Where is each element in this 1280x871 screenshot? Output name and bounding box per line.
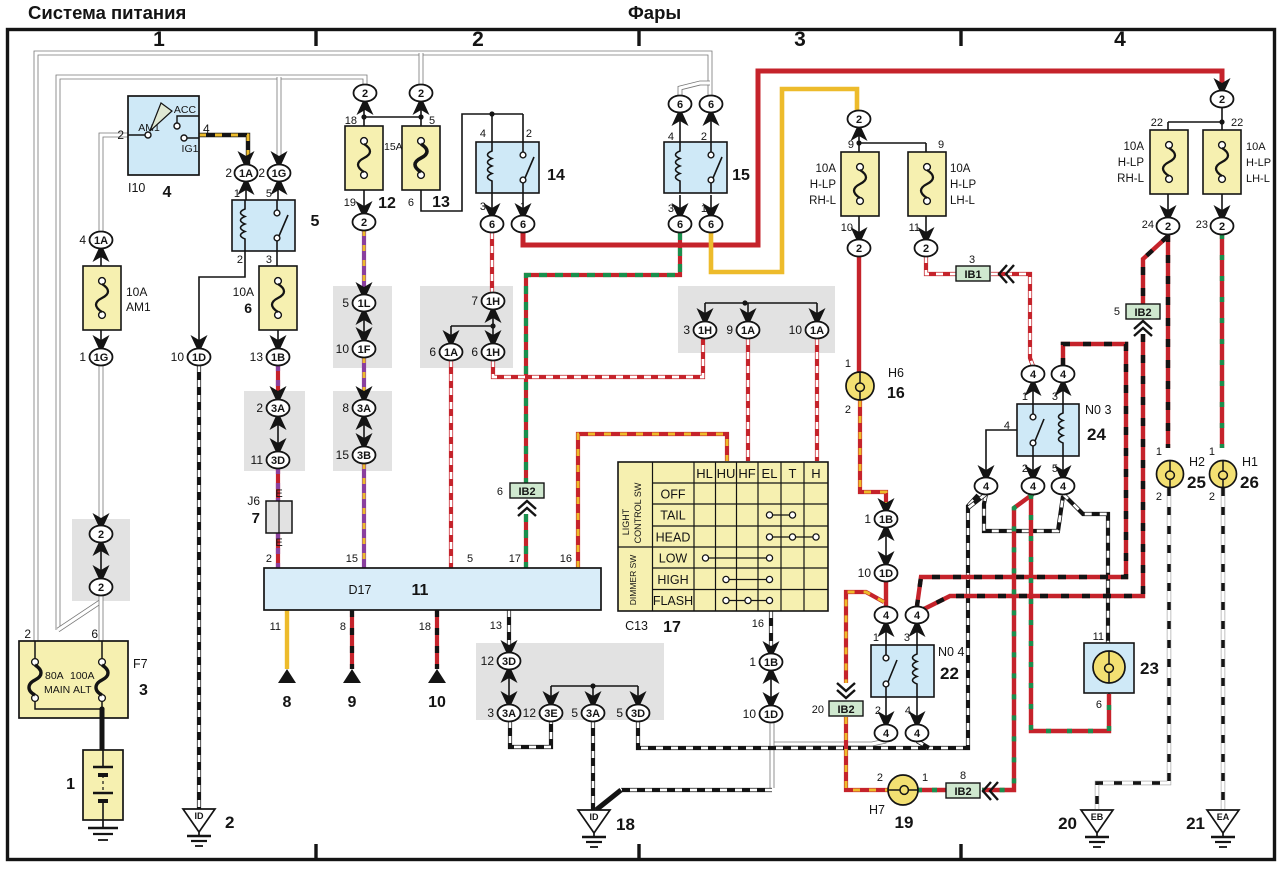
svg-text:4: 4 — [480, 128, 486, 140]
wire red connector 1D to relay22 connector 4 — [884, 581, 888, 607]
wire red-white connector 1H-6 to connector 1H-3 — [493, 338, 703, 377]
svg-text:2: 2 — [117, 128, 124, 142]
connector 4 relay22 pin3 — [909, 624, 926, 637]
connector 1H 7 — [471, 293, 504, 310]
ground ID 2 — [183, 809, 215, 846]
svg-text:7: 7 — [471, 294, 478, 308]
svg-text:9: 9 — [938, 139, 944, 151]
connector pair 1B 1D headlight sw — [878, 498, 895, 511]
svg-text:2: 2 — [1156, 491, 1162, 503]
svg-text:7: 7 — [252, 510, 260, 527]
svg-text:24: 24 — [1087, 425, 1106, 444]
svg-text:2: 2 — [1219, 94, 1225, 106]
svg-text:11: 11 — [412, 582, 429, 599]
wire violet-yellow 3B to D17 pin15 — [362, 463, 366, 568]
svg-text:4: 4 — [883, 610, 890, 622]
wire violet-yellow fuse12 chain to 1L — [362, 230, 366, 295]
svg-text:EL: EL — [762, 466, 778, 481]
svg-text:3B: 3B — [357, 450, 371, 462]
svg-text:3A: 3A — [271, 403, 285, 415]
svg-text:25: 25 — [1187, 473, 1206, 492]
ground EB 20 — [1081, 810, 1113, 847]
wire connector 1A to fuse AM1 — [100, 249, 102, 266]
svg-text:9: 9 — [848, 139, 854, 151]
wire fuse H-LP RH-L to connector 2 — [858, 215, 860, 240]
wire fuse AM1 to connector 1G — [100, 330, 102, 348]
wire yellow relay15 pin1 to fuse bus — [711, 89, 857, 272]
svg-text:Система питания: Система питания — [28, 2, 186, 23]
svg-text:10: 10 — [428, 694, 446, 711]
bulb H7 19 — [869, 772, 928, 832]
svg-text:2: 2 — [526, 128, 532, 140]
panel connectors 1L-1F — [333, 286, 392, 368]
svg-text:6: 6 — [497, 486, 503, 498]
svg-text:4: 4 — [1114, 28, 1126, 51]
wire white battery feed F7 pin2 to connector 2 and relay15 — [36, 53, 710, 641]
wire black-white relay24 connector 4 to bulb 23 — [1063, 494, 1108, 643]
wire white branch to connector 2 above fuse 13 — [419, 53, 424, 85]
connector 3D 5 — [630, 691, 647, 704]
connector 6 relay15 pin4 — [672, 113, 689, 126]
svg-text:16: 16 — [887, 385, 905, 402]
svg-text:4: 4 — [1060, 481, 1067, 493]
wire red fuse output to bulb H6 — [857, 256, 861, 372]
svg-text:E: E — [275, 488, 282, 500]
svg-text:4: 4 — [883, 728, 890, 740]
wire black-white relay22 connector 4 tap — [917, 741, 929, 748]
terminal arrow 10 — [428, 669, 446, 711]
svg-text:10A: 10A — [816, 163, 837, 175]
svg-text:H: H — [811, 466, 820, 481]
wire black-white relay24 connector 4 bottom loop — [984, 494, 1063, 531]
panel connectors 1H-1A-1H — [420, 286, 513, 368]
wire relay24 pin4 to connector 4 — [986, 430, 1029, 478]
svg-text:12: 12 — [523, 706, 537, 720]
svg-text:N0 4: N0 4 — [938, 645, 964, 659]
ECU block D17 11 — [264, 568, 601, 610]
svg-text:3E: 3E — [544, 708, 557, 720]
connector 2 below fuse RH-L mid — [851, 227, 868, 240]
svg-text:1: 1 — [79, 350, 86, 364]
svg-text:HIGH: HIGH — [657, 573, 688, 587]
svg-text:3: 3 — [139, 682, 148, 699]
wire red-yellow D17 pin16 to table HU — [578, 434, 727, 568]
wire black-white connector 1D to ground 2 — [197, 365, 201, 809]
svg-text:15: 15 — [336, 448, 350, 462]
svg-text:4: 4 — [668, 131, 674, 143]
svg-text:20: 20 — [1058, 814, 1077, 833]
svg-text:1: 1 — [873, 632, 879, 644]
wire relay5 pin2 to connector 1D — [199, 251, 245, 348]
connector IB1 3 — [956, 266, 990, 281]
wire white relay15 pin4 jog — [680, 83, 710, 96]
svg-text:3: 3 — [683, 323, 690, 337]
wire red-black D17 pin8 to terminal 9 — [350, 610, 354, 669]
wire bus above H-LP fuses right — [1168, 107, 1222, 130]
fuse 6 10A — [259, 266, 297, 330]
battery ground — [88, 820, 118, 840]
svg-text:TAIL: TAIL — [660, 509, 686, 523]
svg-text:3A: 3A — [502, 708, 516, 720]
svg-text:4: 4 — [983, 481, 990, 493]
connector 2 below fuse LH-L mid — [918, 227, 935, 240]
connector 1H 6 — [485, 330, 502, 343]
wire black-white connector 3D-5 to relay24 connector 4 — [638, 495, 978, 748]
wire relay5 pin3 to fuse6 — [276, 251, 278, 266]
svg-text:8: 8 — [283, 694, 292, 711]
wire black-white bulb H2 to ground 20 — [1097, 488, 1169, 809]
fuse 13 — [402, 126, 440, 190]
svg-text:22: 22 — [1151, 117, 1163, 129]
svg-text:4: 4 — [1030, 369, 1037, 381]
svg-text:2: 2 — [225, 813, 234, 832]
svg-text:T: T — [789, 466, 797, 481]
wire bulb23 pin stubs — [1108, 643, 1110, 694]
svg-text:2: 2 — [1219, 221, 1225, 233]
ground ID 18 — [578, 810, 610, 847]
svg-text:H6: H6 — [888, 366, 904, 380]
connector 4 relay22 pin4 — [909, 711, 926, 724]
relay 15 — [664, 142, 727, 193]
svg-text:18: 18 — [419, 621, 431, 633]
wire right fuses to connectors 2 — [1168, 194, 1222, 218]
wire junction panel 1H left — [451, 309, 493, 344]
relay 22 N0 4 — [871, 645, 934, 697]
connector panel 3D 12 — [501, 640, 518, 653]
wire red-white fuse LH-L to IB1 — [926, 256, 956, 274]
svg-text:3A: 3A — [357, 403, 371, 415]
svg-text:1D: 1D — [764, 709, 778, 721]
svg-text:5: 5 — [1114, 306, 1120, 318]
svg-text:5: 5 — [616, 706, 623, 720]
svg-text:1H: 1H — [486, 296, 500, 308]
svg-text:2: 2 — [256, 401, 263, 415]
connector pair 1L 1F — [356, 282, 373, 295]
svg-text:2: 2 — [225, 166, 232, 180]
svg-text:10A: 10A — [233, 285, 254, 299]
connector 6 relay15 pin2 — [703, 113, 720, 126]
connector pair 2 2 left — [93, 513, 110, 526]
wire black-white connector 3A-3 to 3E-12 — [510, 721, 551, 747]
wire white F7 pin6 loop to connector 2 above fuse 12 — [58, 77, 365, 630]
svg-text:HL: HL — [696, 466, 713, 481]
svg-text:10A: 10A — [1124, 141, 1145, 153]
battery 1 — [66, 750, 123, 820]
terminal arrow 8 — [278, 669, 296, 711]
wire white ignition AM1 to fuse AM1 — [101, 135, 128, 232]
svg-text:CONTROL SW: CONTROL SW — [633, 482, 643, 543]
wire red-white IB1 to relay24 connector 4 — [991, 274, 1033, 366]
svg-text:4: 4 — [163, 184, 172, 201]
svg-text:15A: 15A — [384, 141, 403, 153]
svg-text:1: 1 — [153, 28, 165, 51]
relay 14 — [476, 142, 539, 193]
wire black-white relay24 connector 4 diagonal — [968, 494, 986, 508]
svg-text:1A: 1A — [741, 325, 755, 337]
svg-text:18: 18 — [616, 815, 635, 834]
svg-text:2: 2 — [472, 28, 484, 51]
connector pair 3A 3D left — [270, 386, 287, 399]
svg-text:DIMMER SW: DIMMER SW — [628, 555, 638, 606]
svg-text:13: 13 — [490, 620, 502, 632]
wire green-red relay15 pin3 to IB2-6 to D17 pin17 — [526, 232, 680, 483]
connector 6 relay14 pin1 — [515, 203, 532, 216]
connector 6 relay15 pin3 — [672, 203, 689, 216]
connector pair 3A 3B — [356, 386, 373, 399]
svg-text:13: 13 — [432, 194, 450, 211]
svg-text:6: 6 — [708, 219, 714, 231]
connector 3A 5 — [585, 691, 602, 704]
terminal arrow 9 — [343, 669, 361, 711]
svg-text:4: 4 — [914, 728, 921, 740]
wire white diagonal joint near F7 — [58, 602, 100, 630]
bulb H6 16 — [845, 358, 905, 416]
svg-text:9: 9 — [726, 323, 733, 337]
wire red-violet J6 to D17 pin2 — [276, 533, 280, 568]
svg-text:2: 2 — [258, 166, 265, 180]
svg-text:AM1: AM1 — [126, 300, 151, 314]
connector 1B fuse6 — [270, 335, 287, 348]
svg-text:1H: 1H — [698, 325, 712, 337]
svg-text:15: 15 — [732, 167, 750, 184]
svg-text:16: 16 — [560, 553, 572, 565]
section tick top 2|3 — [637, 28, 640, 46]
svg-text:3: 3 — [480, 201, 486, 213]
panel connectors 2-2 — [72, 519, 130, 601]
svg-text:10: 10 — [743, 707, 757, 721]
wire connectors 6 to relay15 pins — [680, 112, 711, 142]
svg-text:3: 3 — [487, 706, 494, 720]
svg-text:1: 1 — [922, 772, 928, 784]
wire white panel connector 2 to F7 pin6 — [99, 595, 104, 641]
svg-text:1A: 1A — [810, 325, 824, 337]
svg-text:1A: 1A — [444, 347, 458, 359]
connector 3E 12 — [543, 691, 560, 704]
wire violet-yellow 1F to 3A — [362, 357, 366, 400]
svg-text:HF: HF — [738, 466, 755, 481]
svg-text:8: 8 — [960, 770, 966, 782]
svg-text:2: 2 — [237, 254, 243, 266]
svg-text:11: 11 — [1093, 631, 1104, 643]
svg-text:6: 6 — [408, 197, 414, 209]
ground EA 21 — [1207, 810, 1239, 847]
wire junction panel 1H-1A-1A — [705, 303, 817, 322]
svg-text:LH-L: LH-L — [950, 195, 976, 207]
svg-text:1F: 1F — [358, 344, 371, 356]
svg-text:LIGHT: LIGHT — [621, 508, 631, 535]
svg-text:11: 11 — [270, 621, 281, 633]
svg-text:IB2: IB2 — [954, 786, 971, 798]
svg-text:2: 2 — [845, 404, 851, 416]
svg-text:10A: 10A — [1246, 141, 1266, 153]
svg-text:2: 2 — [361, 217, 367, 229]
connector 1G below fuse AM1 — [93, 335, 110, 348]
connector 2 above fuse13 — [413, 102, 430, 115]
svg-text:H-LP: H-LP — [1118, 157, 1145, 169]
svg-text:11: 11 — [251, 453, 264, 467]
connector IB2 20 — [829, 701, 863, 716]
connector 4 relay24 pin3 — [1055, 383, 1072, 396]
svg-text:OFF: OFF — [661, 488, 686, 502]
wire red-white connector 1A-6 to D17 pin5 — [449, 360, 453, 568]
wire relay15 pin3 to connector 6 — [679, 195, 681, 216]
fuse 10A AM1 — [83, 266, 121, 330]
svg-text:ALT: ALT — [73, 684, 92, 696]
connector IB2 5 — [1126, 304, 1160, 319]
wire red-white connector 1A-10 to table H — [815, 338, 819, 461]
fuse 10A H-LP LH-L right — [1203, 130, 1241, 194]
svg-text:2: 2 — [701, 131, 707, 143]
relay 5 — [232, 200, 295, 251]
bulb 23 — [1084, 631, 1159, 711]
wire black-white connector 3A-5 to ground 18 — [591, 721, 595, 810]
svg-text:2: 2 — [1165, 221, 1171, 233]
svg-text:EA: EA — [1217, 812, 1230, 822]
svg-text:6: 6 — [677, 99, 683, 111]
wire red trunk relay14 pin1 to right connector 2 — [523, 71, 1222, 245]
wire red-yellow IB2-20 to bulb H7 — [846, 717, 888, 790]
svg-text:6: 6 — [677, 219, 683, 231]
fusible link block F7 3 — [19, 627, 148, 718]
section tick top 1|2 — [314, 28, 317, 46]
light control switch table C13 17 — [618, 462, 828, 611]
bulb H1 26 — [1209, 446, 1259, 503]
wire black-white D17 pin13 to connector 3D-12 — [507, 610, 511, 645]
connector 6 relay15 pin1 — [703, 203, 720, 216]
svg-text:H2: H2 — [1189, 455, 1205, 469]
svg-text:RH-L: RH-L — [809, 195, 836, 207]
svg-text:2: 2 — [24, 627, 31, 641]
ignition switch I10 4 — [117, 96, 210, 201]
svg-text:H1: H1 — [1242, 455, 1258, 469]
svg-text:6: 6 — [489, 219, 495, 231]
svg-text:10A: 10A — [126, 285, 147, 299]
connector 1A 9 — [740, 308, 757, 321]
wire fuse12 to connector 2 — [363, 187, 365, 214]
wire bus above fuses 12 13 — [364, 101, 421, 126]
wire relay14 pin1 to connector 6 — [522, 193, 524, 216]
svg-text:5: 5 — [571, 706, 578, 720]
connector 1H 3 — [697, 308, 714, 321]
svg-text:IB1: IB1 — [964, 269, 981, 281]
svg-text:17: 17 — [509, 553, 521, 565]
panel connectors 3A-3D left — [244, 391, 305, 471]
svg-text:5: 5 — [311, 213, 320, 230]
svg-text:2: 2 — [877, 772, 883, 784]
svg-text:4: 4 — [203, 122, 210, 136]
svg-text:J6: J6 — [247, 494, 260, 508]
svg-text:21: 21 — [1186, 814, 1205, 833]
fuse 10A H-LP LH-L mid — [908, 152, 946, 216]
svg-text:ID: ID — [195, 811, 205, 821]
svg-text:4: 4 — [1004, 420, 1010, 432]
svg-text:E: E — [275, 537, 282, 549]
section tick top 3|4 — [959, 28, 962, 46]
svg-text:13: 13 — [250, 350, 264, 364]
connector pair 1B 1D table — [763, 641, 780, 654]
wire black-white ground run to ground 18 — [621, 788, 772, 792]
svg-text:F7: F7 — [133, 657, 148, 671]
svg-text:6: 6 — [520, 219, 526, 231]
wire fuse H-LP LH-L to connector 2 — [925, 215, 927, 240]
svg-text:H-LP: H-LP — [810, 179, 837, 191]
connector 4 relay24 pin5 — [1055, 465, 1072, 478]
svg-text:100A: 100A — [70, 670, 95, 682]
wire red-green relay24 connector 4 to IB2-8 — [982, 494, 1033, 790]
svg-text:15: 15 — [346, 553, 358, 565]
wire connector 1G to relay5 pin5 — [277, 182, 279, 200]
wire red-white connector 1A-9 to table HF — [746, 338, 750, 461]
svg-text:ID: ID — [590, 812, 600, 822]
connector 2 below fuse12 — [356, 201, 373, 214]
connector IB2 6 — [510, 483, 544, 498]
wire fuse13 to relay14 pins 4 2 — [421, 114, 523, 211]
svg-text:N0 3: N0 3 — [1085, 403, 1111, 417]
svg-text:1D: 1D — [879, 568, 893, 580]
svg-text:Фары: Фары — [628, 2, 681, 23]
svg-text:10: 10 — [336, 342, 350, 356]
svg-text:5: 5 — [467, 553, 473, 565]
svg-text:1B: 1B — [271, 352, 285, 364]
svg-text:6: 6 — [708, 99, 714, 111]
connector 1G ignition — [271, 151, 288, 164]
svg-text:HU: HU — [717, 466, 736, 481]
svg-text:2: 2 — [362, 88, 368, 100]
wire relay22 pins to connectors 4 — [886, 623, 917, 725]
panel connectors 3D-3A-3E-3A-3D — [476, 643, 664, 720]
svg-text:3A: 3A — [586, 708, 600, 720]
svg-text:2: 2 — [923, 243, 929, 255]
connector 1A 10 — [809, 308, 826, 321]
svg-text:H-LP: H-LP — [950, 179, 977, 191]
connector 4 relay24 pin1 — [1025, 383, 1042, 396]
svg-text:1G: 1G — [94, 352, 109, 364]
bulb H2 25 — [1156, 446, 1206, 503]
svg-text:RH-L: RH-L — [1117, 173, 1144, 185]
svg-text:3: 3 — [794, 28, 806, 51]
svg-text:5: 5 — [429, 115, 435, 127]
svg-text:1B: 1B — [764, 657, 778, 669]
svg-text:14: 14 — [547, 167, 565, 184]
svg-text:H7: H7 — [869, 803, 885, 817]
svg-text:80A: 80A — [45, 670, 64, 682]
wire relay24 pins to connectors 4 — [1033, 382, 1063, 478]
svg-text:24: 24 — [1142, 219, 1154, 231]
svg-text:17: 17 — [663, 619, 681, 636]
svg-text:4: 4 — [905, 705, 911, 717]
svg-text:EB: EB — [1091, 812, 1104, 822]
svg-text:5: 5 — [342, 296, 349, 310]
connector 2 below fuse RH-L right — [1160, 205, 1177, 218]
svg-text:23: 23 — [1196, 219, 1208, 231]
wire red-black relay24 connector 4 to relay22 connector 4 — [917, 344, 1126, 606]
connector 4 relay24 pin2 — [1025, 465, 1042, 478]
wire red-black D17 pin18 to terminal 10 — [435, 610, 439, 669]
svg-text:IB2: IB2 — [518, 486, 535, 498]
wire red-white relay14 pin3 to connector 1H-7 — [490, 232, 494, 293]
svg-text:2: 2 — [98, 529, 104, 541]
wire thick black F7 to battery — [100, 709, 105, 750]
section tick bottom 1|2 — [314, 844, 317, 860]
svg-text:12: 12 — [481, 654, 495, 668]
connector 4 relay24 pin4 — [978, 465, 995, 478]
svg-text:1: 1 — [845, 358, 851, 370]
wire red-black connector 2 to bulb H2 — [1166, 234, 1170, 448]
connector 2 red trunk right — [1214, 78, 1231, 91]
connector 1A 6 — [443, 330, 460, 343]
svg-text:6: 6 — [429, 345, 436, 359]
relay 24 N0 3 — [1017, 404, 1079, 456]
